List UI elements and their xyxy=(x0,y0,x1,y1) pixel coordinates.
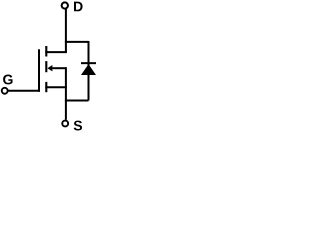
label G xyxy=(3,75,12,85)
wire body to source vertical xyxy=(65,67,67,87)
gate wire xyxy=(8,90,40,92)
terminal G xyxy=(2,88,8,94)
diode D1 anode triangle xyxy=(81,64,96,75)
wire drain vertical xyxy=(65,9,67,53)
terminal S xyxy=(62,121,68,127)
mosfet Q1 body arrow head xyxy=(47,65,52,71)
wire diode branch vertical xyxy=(88,41,90,101)
label D xyxy=(74,2,83,12)
diode D1 cathode bar xyxy=(81,62,96,64)
mosfet Q1 drain tap wire xyxy=(45,51,67,53)
mosfet Q1 channel segment bottom xyxy=(45,82,47,92)
mosfet Q1 source tap wire xyxy=(45,86,67,88)
mosfet Q1 gate bar xyxy=(38,49,40,92)
mosfet Q1 channel segment middle xyxy=(45,61,47,72)
wire top junction to diode branch xyxy=(65,41,89,43)
wire bottom junction from source to diode branch xyxy=(65,100,89,102)
terminal D xyxy=(62,2,68,8)
label S xyxy=(74,121,82,131)
wire source vertical xyxy=(65,87,67,120)
mosfet Q1 body tap wire xyxy=(52,67,66,69)
mosfet Q1 channel segment top xyxy=(45,46,47,57)
